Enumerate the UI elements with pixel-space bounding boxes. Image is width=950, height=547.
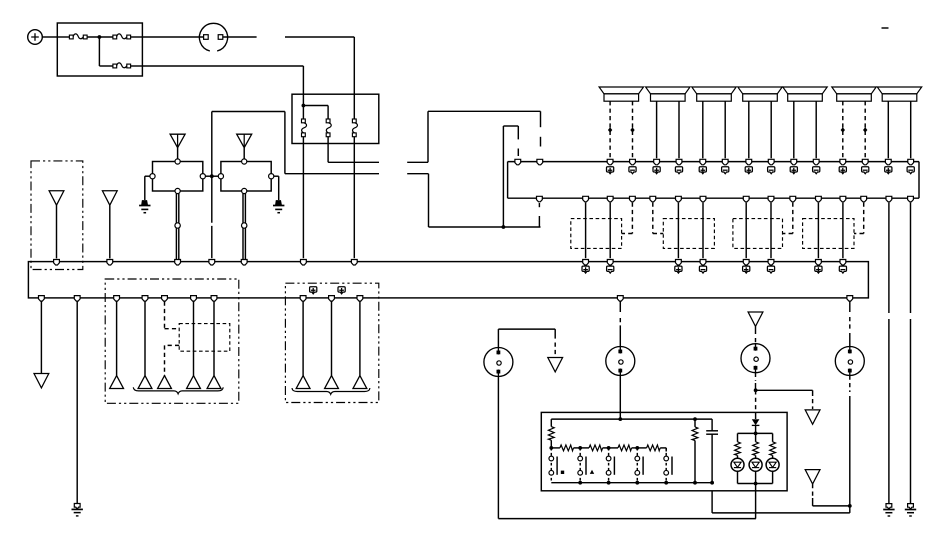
arrow connector A13 (748, 312, 763, 326)
wire J4 leg 2 (770, 101, 772, 158)
junction dot fuse box (98, 35, 102, 39)
arrow connector A11 (353, 376, 367, 389)
node harness pin B10 (357, 296, 363, 302)
LED D4 (766, 458, 779, 471)
terminal minus harness 4 (699, 266, 706, 273)
wire J4 leg 1 (748, 101, 750, 158)
fuse F1 (69, 34, 87, 39)
resistor R4 (618, 445, 632, 451)
arrow connector A10 (325, 376, 339, 389)
wire S3 bottom (755, 373, 757, 391)
connector box CB1 (chain line) (31, 161, 83, 270)
wire J6 leg 2 (dashed) (864, 101, 866, 158)
wire harness to S4 (849, 302, 851, 347)
junction dot bottom rail 2 (607, 481, 611, 485)
wire LED 1 to rail (737, 471, 739, 483)
wire B3 down (116, 302, 118, 376)
ground G6 (905, 504, 916, 516)
wire meter bottom rail (551, 482, 712, 484)
resistor R1 (548, 419, 554, 448)
junction diamond J1 leg 2 (630, 127, 634, 132)
wire LED 2 to rail (755, 471, 757, 483)
wire arrow A15 to return (813, 484, 850, 506)
wire harness to S2 (619, 302, 621, 347)
terminal RL2 top (242, 159, 247, 164)
resistor R7 (735, 442, 741, 459)
wire J2 leg 2 (678, 101, 680, 158)
node bus pin 3 (654, 159, 660, 165)
wire S3 to diode (dashed) (755, 390, 757, 419)
junction dot S3 branch (754, 388, 758, 392)
wire diode to LED rail (755, 425, 757, 433)
wire B10 down (359, 302, 361, 376)
junction diamond J6 leg 1 (841, 127, 845, 132)
wire J1 leg 1 (dashed) (609, 101, 611, 158)
junction dot ECM ground (502, 225, 506, 229)
node harness pin top-4 (700, 260, 706, 266)
wire J7 leg 2 (910, 101, 912, 158)
wire node rail segment 2 (574, 447, 590, 449)
node bus pin down-2 (583, 196, 589, 202)
terminal plus pin 3 (653, 167, 660, 174)
main harness connector box (28, 262, 868, 298)
wire battery to fuse box (42, 36, 57, 38)
node harness pin top-1 (583, 260, 589, 266)
wire meter top rail (551, 418, 712, 420)
terminal plus pin 1 (607, 167, 614, 174)
injector J3 (692, 87, 736, 101)
wire B7 down (213, 302, 215, 376)
wire S1 top to arrow (498, 329, 555, 356)
ground G5 (883, 504, 894, 516)
ground G2 (273, 200, 284, 213)
node bus pin 1 (607, 159, 613, 165)
sub fuse FA (302, 119, 307, 137)
injector J6 (832, 87, 876, 101)
node harness pin L1 (54, 260, 60, 266)
brace group CB3 (292, 388, 370, 394)
node bus pin down-7 (768, 196, 774, 202)
wire J7 leg 1 (887, 101, 889, 158)
node bus pin down right-2 (908, 196, 914, 202)
wire J5 leg 1 (793, 101, 795, 158)
wire A2 down (109, 205, 111, 258)
relay RL1 (153, 162, 203, 192)
terminal minus pin 8 (768, 167, 775, 174)
wire ECM output 2 (609, 203, 611, 259)
wire shield drain L2 (dashed) (783, 203, 793, 234)
wire relay node riser (211, 176, 213, 258)
wire node rail segment 1 (551, 447, 560, 449)
arrow connector A9 (296, 376, 310, 389)
terminal RL2 bottom (242, 188, 247, 193)
terminal RL2 right (269, 174, 274, 179)
node harness pin B9 (329, 296, 335, 302)
wire node rail segment 4 (632, 447, 647, 449)
arrow connector A7 (187, 376, 201, 389)
connector C4 (dashed) (803, 219, 854, 249)
resistor R5 (647, 445, 661, 451)
terminal minus harness 8 (839, 266, 846, 273)
injector J2 (646, 87, 690, 101)
terminal minus pin 14 (907, 167, 914, 174)
node harness pin L4 (209, 260, 215, 266)
node ECM pin A1 (515, 159, 521, 165)
node bus pin 5 (700, 159, 706, 165)
terminal plus harness 3 (675, 266, 682, 273)
injector J5 (783, 87, 827, 101)
wire ECM pin to lower corner (538, 203, 540, 227)
wire B1 down (40, 302, 42, 374)
ECM connector bus box (508, 162, 919, 199)
wire RL2 to ground (274, 176, 279, 200)
node harness pin top-3 (676, 260, 682, 266)
sensor S3 (coolant sensor) (741, 344, 770, 373)
wire right ground lead 2 (910, 203, 912, 504)
node bus pin down-5 (700, 196, 706, 202)
terminal minus pin 4 (675, 167, 682, 174)
ground G1 (139, 200, 150, 213)
wire J5 leg 2 (815, 101, 817, 158)
wire arrow to RL2 (243, 148, 245, 159)
wire FC down to main harness (353, 137, 355, 259)
wire ECM inner branch (503, 126, 518, 156)
arrow connector A5 (138, 376, 152, 389)
resistor R6 (692, 419, 698, 483)
node bus pin 11 (840, 159, 846, 165)
connector C2 (dashed) (663, 219, 714, 249)
junction dot bottom rail 4 (664, 481, 668, 485)
node bus pin 13 (885, 159, 891, 165)
sensor S1 (pulse generator) (484, 348, 513, 377)
wire ECM output 4 (702, 203, 704, 259)
sensor S2 (speed sensor) (606, 347, 635, 376)
node bus pin 10 (813, 159, 819, 165)
wire LED 3 to rail (772, 471, 774, 483)
connector circle RL2 lead (242, 223, 247, 228)
junction dot relay link (210, 174, 214, 178)
node bus pin 2 (630, 159, 636, 165)
wire J3 leg 2 (724, 101, 726, 158)
wire switch output (223, 36, 257, 38)
junction dot bottom rail 6 (710, 481, 714, 485)
junction dot bottom rail 3 (635, 481, 639, 485)
node bus pin shield L3 (861, 196, 867, 202)
wire S4 bottom long (712, 376, 850, 513)
node bus pin shield L1 (630, 196, 636, 202)
node harness pin B11 (617, 296, 623, 302)
node harness pin top-2 (607, 260, 613, 266)
wire B2 down to ground (76, 302, 78, 504)
junction dot R6 top (693, 417, 697, 421)
wire junction to sub fuse 2 (303, 106, 328, 120)
arrow connector above relay RL1 (170, 134, 185, 148)
connector C5 (dashed) (179, 324, 230, 352)
wire FA down to main harness (302, 137, 304, 259)
node harness pin B7 (211, 296, 217, 302)
arrow connector above relay RL2 (237, 134, 252, 148)
terminal RL1 right (200, 174, 205, 179)
node bus pin 4 (676, 159, 682, 165)
node bus pin down-6 (743, 196, 749, 202)
terminal plus harness 5 (743, 266, 750, 273)
terminal plus pin 9 (790, 167, 797, 174)
terminal plus CB3-2 (338, 287, 345, 294)
arrow connector A15 (805, 470, 820, 484)
junction dot LED rail (754, 432, 758, 436)
terminal plus pin 11 (839, 167, 846, 174)
wire switch line resumed (285, 36, 354, 38)
junction dot bottom rail 1 (578, 481, 582, 485)
wire RL1 to ground (145, 176, 150, 200)
wire shield drain L1 (dashed) (622, 203, 633, 234)
wire B8 down (302, 302, 304, 376)
terminal plus pin 7 (745, 167, 752, 174)
wire ECM output 1 (585, 203, 587, 259)
wire ECM output 5 (745, 203, 747, 259)
node harness pin top-5 (743, 260, 749, 266)
terminal RL1 bottom (175, 188, 180, 193)
node harness pin B4 (142, 296, 148, 302)
wire LED rail (738, 433, 773, 441)
meter unit box (541, 412, 787, 490)
connector C1 (dashed) (571, 219, 622, 249)
wire fuse box to ignition switch (142, 36, 203, 38)
node harness pin B1 (39, 296, 45, 302)
node bus pin shield L2 (790, 196, 796, 202)
junction dot node 4 (635, 446, 639, 450)
wire J3 leg 1 (702, 101, 704, 158)
ECM lower lead stub (407, 173, 428, 175)
wire switch line down to sub fuse 3 (353, 37, 355, 119)
indicator glyph square (561, 471, 564, 474)
arrow connector A12 (548, 358, 563, 372)
junction dot LED return (754, 482, 758, 486)
wire ECM output 8 (842, 203, 844, 259)
node harness pin top-7 (816, 260, 822, 266)
terminal plus pin 5 (699, 167, 706, 174)
sub fuse box (292, 94, 379, 143)
terminal plus pin 13 (885, 167, 892, 174)
ECM box outline (428, 111, 541, 227)
wire B6 down (193, 302, 195, 376)
arrow connector A6 (158, 376, 172, 389)
terminal plus harness 7 (815, 266, 822, 273)
arrow connector A4 (110, 376, 124, 389)
node harness pin B2 (74, 296, 80, 302)
terminal plus harness 1 (582, 266, 589, 273)
node bus pin 12 (862, 159, 868, 165)
wire ECM inner ground rail (502, 126, 504, 227)
label tick top right (882, 27, 889, 29)
wire LED return down (755, 484, 757, 519)
wire RL1 to RL2 link (205, 175, 218, 177)
injector J1 (599, 87, 643, 101)
sub fuse FB (326, 119, 331, 137)
sub fuse FC (352, 119, 357, 137)
junction dot S4 return (848, 504, 852, 508)
node bus pin 7 (746, 159, 752, 165)
node harness pin B6 (191, 296, 197, 302)
wire RL2 double line down (243, 194, 245, 260)
node harness pin B3 (114, 296, 120, 302)
resistor R8 (753, 442, 759, 459)
connector C3 (dashed) (733, 219, 783, 249)
indicator glyph triangle (590, 470, 594, 474)
injector J4 (738, 87, 782, 101)
node bus pin down-9 (840, 196, 846, 202)
switch SW5 contacts (635, 448, 643, 483)
node harness pin top-6 (768, 260, 774, 266)
wire F2 to box edge (131, 36, 143, 38)
diode D1 (752, 419, 760, 425)
node harness pin top-8 (840, 260, 846, 266)
junction diamond J6 leg 2 (863, 127, 867, 132)
wire node rail segment 3 (603, 447, 618, 449)
terminal minus harness 6 (767, 266, 774, 273)
wire ECM output 7 (817, 203, 819, 259)
wire F3 feed line (142, 66, 303, 106)
node bus pin 6 (722, 159, 728, 165)
ignition switch SW1 (199, 23, 227, 51)
terminal RL1 left (150, 174, 155, 179)
wire ECM output 3 (677, 203, 679, 259)
wire LED bottom rail (738, 483, 773, 485)
node bus pin down right-1 (886, 196, 892, 202)
node bus pin down-8 (816, 196, 822, 202)
terminal RL1 top (175, 159, 180, 164)
junction dot bottom rail 5 (693, 481, 697, 485)
LED D2 (731, 458, 744, 471)
arrow connector A1 (49, 191, 64, 205)
connector circle RL1 lead (175, 223, 180, 228)
switch SW2 contacts (549, 448, 557, 483)
wire J6 leg 1 (dashed) (842, 101, 844, 158)
wire J1 leg 2 (dashed) (632, 101, 634, 158)
terminal RL2 left (218, 174, 223, 179)
terminal minus pin 6 (722, 167, 729, 174)
wire RL1 double line down (176, 194, 178, 260)
battery B1 (+) terminal (28, 30, 43, 45)
connector box CB2 (chain line) (105, 279, 239, 403)
resistor R9 (770, 442, 776, 459)
node bus pin down-4 (676, 196, 682, 202)
switch SW4 contacts (606, 448, 614, 483)
terminal minus pin 12 (862, 167, 869, 174)
wire arrow to RL1 (177, 148, 179, 159)
wire relay node to ECM lower lead (212, 112, 379, 177)
node bus pin shield R1 (650, 196, 656, 202)
terminal minus harness 2 (607, 266, 614, 273)
terminal minus pin 10 (813, 167, 820, 174)
arrow connector A2 (102, 191, 117, 205)
wire S3 branch to arrow (756, 390, 813, 409)
fuse F2 (113, 34, 131, 39)
wire F3 to box edge (131, 65, 143, 67)
junction dot fuel node (578, 446, 582, 450)
arrow connector A14 (805, 410, 820, 424)
wire junction down to F3 row (99, 37, 113, 66)
fuse F3 (113, 63, 131, 68)
terminal minus pin 2 (629, 167, 636, 174)
node ECM bus pin down-1 (537, 196, 543, 202)
node ECM pin B1 (537, 159, 543, 165)
junction dot temp node (607, 446, 611, 450)
wire junction to sub fuse 1 (302, 106, 304, 120)
wire S1 bottom long (498, 377, 756, 519)
junction dot R1 node (549, 446, 553, 450)
brace group CB2 (133, 387, 223, 394)
wire B9 down (331, 302, 333, 376)
resistor R3 (589, 445, 603, 451)
junction dot meter supply (618, 417, 622, 421)
node harness pin L5 (241, 260, 247, 266)
sensor S4 (bank angle sensor) (835, 347, 864, 376)
junction diamond J1 leg 1 (608, 127, 612, 132)
wire node rail segment 5 (660, 448, 666, 452)
node harness pin B12 (847, 296, 853, 302)
arrow connector A3 (34, 374, 49, 388)
node harness pin B5 (162, 296, 168, 302)
node harness pin L3 (175, 260, 181, 266)
node harness pin L7 (351, 260, 357, 266)
arrow connector A8 (207, 376, 221, 389)
resistor R2 (560, 445, 574, 451)
fuse box (main) (57, 23, 142, 76)
wire right ground lead 1 (888, 203, 890, 504)
ground G3 (72, 504, 83, 516)
relay RL2 (221, 162, 271, 192)
ECM upper lead stub (407, 161, 428, 163)
wire ECM output 6 (770, 203, 772, 259)
node harness pin B8 (300, 296, 306, 302)
switch SW3 contacts (578, 448, 586, 483)
terminal plus CB3-1 (310, 287, 317, 294)
node bus pin 14 (908, 159, 914, 165)
wire F1 to junction (87, 36, 113, 38)
node bus pin 9 (791, 159, 797, 165)
node harness pin L6 (301, 260, 307, 266)
wire FB to ECM upper lead (328, 137, 379, 163)
wire ECM right edge dashed crossing (540, 137, 542, 147)
wire fuse box left edge to fuse F1 (57, 36, 69, 38)
node harness pin L2 (107, 260, 113, 266)
node bus pin 8 (768, 159, 774, 165)
connector box CB3 (chain line) (285, 283, 378, 402)
junction dot sub fuse feed (302, 104, 306, 108)
wire S2 bottom to meter (619, 376, 621, 420)
wire shield drain R1 (dashed) (653, 203, 664, 234)
wire arrow to S3 (755, 326, 757, 343)
injector J7 (877, 87, 921, 101)
capacitor C10 (706, 419, 718, 483)
wire B5 down (dashed) (165, 302, 180, 376)
wire B4 down (144, 302, 146, 376)
wire J2 leg 1 (656, 101, 658, 158)
switch SW6 contacts (664, 448, 672, 483)
node bus pin down-3 (607, 196, 613, 202)
wire A1 down (56, 205, 58, 258)
LED D3 (749, 458, 762, 471)
wire shield drain L3 (dashed) (854, 203, 864, 234)
